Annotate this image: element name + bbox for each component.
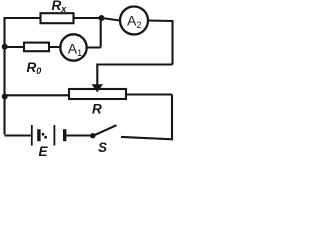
svg-text:E: E (39, 144, 49, 158)
svg-text:R: R (92, 102, 102, 117)
svg-text:S: S (98, 140, 107, 155)
